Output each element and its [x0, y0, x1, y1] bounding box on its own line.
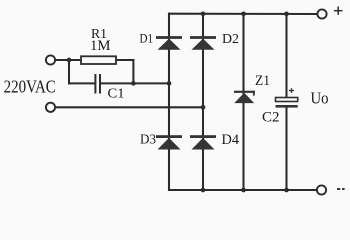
svg-text:C1: C1 [108, 86, 125, 101]
wire left vertical of RC combo [68, 60, 70, 83]
plus sign at output terminal [334, 7, 343, 15]
wire right vertical of RC combo [132, 60, 134, 83]
diode D1 [156, 36, 182, 50]
svg-text:D1: D1 [140, 31, 154, 45]
capacitor C2 top plate [276, 98, 298, 102]
diode D4 [190, 135, 216, 149]
wire top rail [169, 13, 317, 15]
capacitor C1 plates [95, 74, 100, 94]
diode D3 [156, 135, 182, 149]
wire top input to resistor [56, 59, 81, 61]
svg-text:1M: 1M [90, 38, 111, 54]
wire bottom branch right of C1 to bridge node [101, 82, 170, 84]
svg-text:220VAC: 220VAC [4, 77, 56, 97]
svg-text:D4: D4 [222, 132, 240, 148]
diode D2 [190, 36, 216, 50]
zener diode Z1 [234, 91, 255, 103]
svg-text:Uo: Uo [311, 89, 329, 108]
terminal input bottom-left [46, 103, 55, 112]
wire bottom rail [169, 189, 316, 191]
terminal output plus top-right [317, 9, 326, 18]
svg-text:C2: C2 [262, 110, 280, 126]
wire resistor right to corner [116, 59, 133, 61]
plus sign at capacitor C2 [289, 88, 294, 93]
capacitor C2 bottom plate [276, 105, 298, 108]
wire C2 column upper [285, 14, 287, 98]
svg-text:D3: D3 [140, 133, 156, 148]
resistor R1 body [81, 56, 116, 64]
svg-text:Z1: Z1 [255, 73, 270, 89]
terminal input top-left [46, 55, 55, 64]
terminal output minus bottom-right [317, 185, 326, 194]
wire bottom branch left of C1 [69, 82, 95, 84]
svg-text:D2: D2 [222, 31, 239, 46]
wire bridge right column [202, 14, 204, 190]
minus sign at output terminal [337, 188, 345, 190]
wire C2 column lower [285, 108, 287, 190]
wire zener column [242, 14, 244, 190]
wire bottom input to bridge node [56, 106, 203, 108]
wire bridge left column [168, 14, 170, 190]
